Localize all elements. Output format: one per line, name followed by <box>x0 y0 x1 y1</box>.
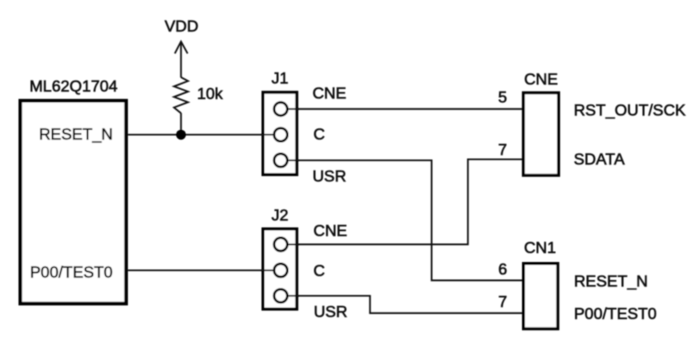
svg-text:ML62Q1704: ML62Q1704 <box>29 79 117 96</box>
wire resistor to junction <box>180 113 182 135</box>
J2 pin circle 2 <box>274 264 287 277</box>
wire P00/TEST0 net <box>128 269 281 271</box>
wire J2 USR to CN1 pin 7 <box>281 296 523 313</box>
connector J1 box <box>263 92 297 174</box>
wire RESET_N net <box>128 134 281 136</box>
svg-text:5: 5 <box>498 89 507 106</box>
J1 pin circle 1 <box>274 102 287 115</box>
J2 pin circle 3 <box>274 289 287 302</box>
wire stub J1 pin2 <box>261 134 275 136</box>
svg-text:P00/TEST0: P00/TEST0 <box>574 306 657 323</box>
svg-text:P00/TEST0: P00/TEST0 <box>30 264 113 281</box>
J2 pin circle 1 <box>274 238 287 251</box>
J1 pin circle 3 <box>274 154 287 167</box>
svg-text:RESET_N: RESET_N <box>574 273 648 290</box>
svg-text:RESET_N: RESET_N <box>39 127 113 144</box>
svg-text:SDATA: SDATA <box>574 151 625 168</box>
svg-text:7: 7 <box>498 142 507 159</box>
svg-text:CN1: CN1 <box>524 240 556 257</box>
IC U1 ML62Q1704 box <box>20 101 126 304</box>
wire J1 CNE to CNE pin 5 <box>281 108 523 110</box>
resistor R1 <box>174 77 188 113</box>
svg-text:6: 6 <box>498 261 507 278</box>
svg-text:CNE: CNE <box>313 223 347 240</box>
wire J1 USR to CN1 pin 6 <box>281 160 523 280</box>
wire stub J2 pin3 <box>287 295 299 297</box>
wire stub J1 pin1 <box>287 108 299 110</box>
svg-text:J1: J1 <box>272 71 289 88</box>
svg-text:CNE: CNE <box>313 85 347 102</box>
svg-text:10k: 10k <box>197 86 224 103</box>
svg-text:7: 7 <box>498 294 507 311</box>
svg-text:J2: J2 <box>272 208 289 225</box>
wire stub J1 pin3 <box>287 159 299 161</box>
J1 pin circle 2 <box>274 128 287 141</box>
wire stub J2 pin2 <box>261 269 275 271</box>
junction dot <box>176 130 186 140</box>
wire stub J2 pin1 <box>287 243 299 245</box>
svg-text:VDD: VDD <box>165 19 199 36</box>
svg-text:USR: USR <box>314 304 348 321</box>
svg-text:C: C <box>313 126 325 143</box>
svg-text:C: C <box>313 263 325 280</box>
wire J2 CNE to CNE pin 7 <box>281 159 523 244</box>
svg-text:USR: USR <box>313 168 347 185</box>
svg-text:CNE: CNE <box>524 71 558 88</box>
connector CN1 box <box>524 264 558 329</box>
svg-text:RST_OUT/SCK: RST_OUT/SCK <box>574 102 686 119</box>
connector J2 box <box>263 229 297 309</box>
power symbol VDD <box>175 42 188 78</box>
connector CNE box <box>523 93 558 176</box>
